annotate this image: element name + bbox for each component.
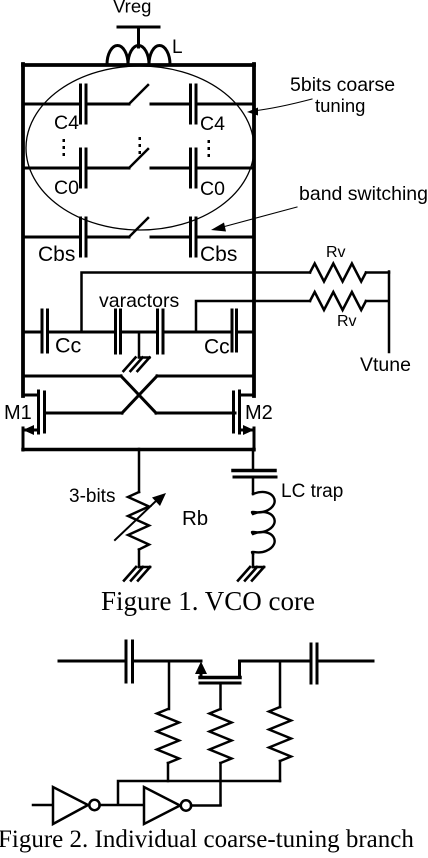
wire C4 row left [23,103,79,106]
wire varactor centre stub [138,332,141,357]
wire C4 row mid [88,103,130,106]
wire varactor node A to Rv1 [82,273,311,333]
wire cross diagonal 1 [121,376,156,413]
wire Cbs row mid [88,236,130,239]
wire drop to R3 [279,661,282,707]
wire C0 row right [198,167,255,170]
wire Cbs row left [23,236,79,239]
capacitor C0 right [191,149,197,187]
wire fig2 main mid [134,660,201,663]
svg-text:Figure 2. Individual coarse-tu: Figure 2. Individual coarse-tuning branc… [0,826,414,853]
wire C0 row mid [88,167,130,170]
wire tank top rail [23,63,254,67]
wire cross couple gate right [156,412,235,415]
transistor switch fig2 [201,661,308,677]
svg-text:Vreg: Vreg [113,0,151,17]
capacitor Cbs left [81,218,87,256]
5bits coarse tuning ellipse [26,66,254,230]
wire R2 to inverter2 output [219,763,222,805]
dots column left [63,139,66,156]
wire tank right edge [252,64,256,396]
resistor fig2 R2 [210,709,232,763]
ground varactor centre [124,358,150,372]
svg-text:C0: C0 [200,178,225,200]
wire tail [138,449,141,492]
capacitor C0 left [81,149,87,187]
wire C0 row mid2 [151,167,189,170]
resistor Rb [128,492,149,550]
wire inverter1 to inverter2 [100,804,144,807]
svg-text:C4: C4 [200,113,225,135]
wire C4 row right [198,103,255,106]
svg-text:Cc: Cc [55,334,82,358]
transistor M2 [234,391,255,433]
wire Cbs row right [198,236,255,239]
dots column middle [139,137,142,154]
ground below Rb [124,567,150,581]
svg-text:Rv: Rv [326,244,346,261]
inductor L [107,46,170,65]
dots column right [208,140,211,157]
wire varactor row right [239,331,255,334]
wire cap to coil [252,478,255,494]
wire varactor node B to Rv2 [196,301,310,332]
switch Cbs row (band switch) [129,218,148,237]
svg-text:Cbs: Cbs [38,243,75,266]
arrow to ellipse [253,99,312,111]
wire R1 to bus [167,763,170,781]
wire tank left edge [21,64,25,396]
wire varactor row left [23,331,40,334]
wire C4 row mid2 [151,103,189,106]
wire varactor row b [123,331,156,334]
arrow to Cbs switch [219,207,297,228]
varactor left [116,310,121,353]
wire drop to R1 [168,661,171,709]
capacitor Cc right [232,310,237,351]
wire bottom rail [23,448,254,452]
wire C0 row left [23,167,79,170]
wire right edge lower [253,428,256,450]
switch C0 row [129,149,148,168]
wire cross couple top right [157,375,254,378]
svg-text:Vtune: Vtune [360,354,411,376]
capacitor Cbs right [191,218,197,256]
capacitor Cc left [42,310,48,352]
wire varactor row c [165,331,230,334]
switch C4 row [129,85,148,104]
capacitor fig2 left [126,641,133,682]
svg-text:C4: C4 [54,112,79,134]
svg-text:tuning: tuning [315,95,365,116]
capacitor C4 right [191,85,197,123]
arrow 3-bits through Rb [115,500,157,540]
wire cross couple gate left [45,412,122,415]
inverter 1 [53,787,88,824]
resistor fig2 R1 [157,709,179,763]
svg-text:L: L [172,37,183,58]
wire LC trap top [252,449,255,470]
inverter 2 [144,787,180,824]
wire Rv2 to Vtune rail [366,300,388,303]
varactor right [158,310,164,353]
svg-text:M1: M1 [4,402,32,424]
wire gate lead to R2 [219,683,222,709]
svg-text:varactors: varactors [99,290,179,312]
resistor Rv1 [310,264,366,282]
capacitor LC trap [233,469,275,473]
resistor fig2 R3 [269,707,291,761]
svg-text:3-bits: 3-bits [69,486,115,507]
svg-text:Cc: Cc [204,336,230,359]
svg-text:band switching: band switching [299,183,428,205]
wire varactor row a [50,331,115,334]
inductor LC trap coil [252,492,275,554]
wire Vtune vertical [388,272,391,353]
wire coil to ground [252,554,255,567]
wire fig2 main right [319,660,374,663]
capacitor fig2 right [311,644,317,683]
svg-text:5bits coarse: 5bits coarse [290,74,395,96]
wire fig2 main left [59,660,123,663]
wire bus [118,781,280,804]
capacitor C4 left [81,85,87,123]
ground below LC trap [238,567,264,581]
svg-text:M2: M2 [245,402,273,424]
wire Rb to ground [138,550,141,568]
wire inverter1 input [33,804,52,807]
wire Cbs row mid2 [151,236,189,239]
wire inverter2 output [191,804,221,807]
Vreg supply T bar [118,27,159,47]
svg-text:Rv: Rv [337,313,357,330]
wire R3 to bus [279,761,282,781]
svg-text:Figure 1. VCO core: Figure 1. VCO core [101,586,315,616]
transistor M1 [23,391,45,433]
wire cross couple top left [23,375,121,378]
svg-text:Rb: Rb [182,507,208,530]
svg-text:C0: C0 [54,177,79,199]
resistor Rv2 [310,292,366,310]
svg-text:LC trap: LC trap [281,481,343,502]
wire left edge lower [22,428,25,450]
wire cross diagonal 2 [122,376,157,413]
wire Rv1 to Vtune rail [366,271,389,274]
svg-text:Cbs: Cbs [200,243,237,266]
